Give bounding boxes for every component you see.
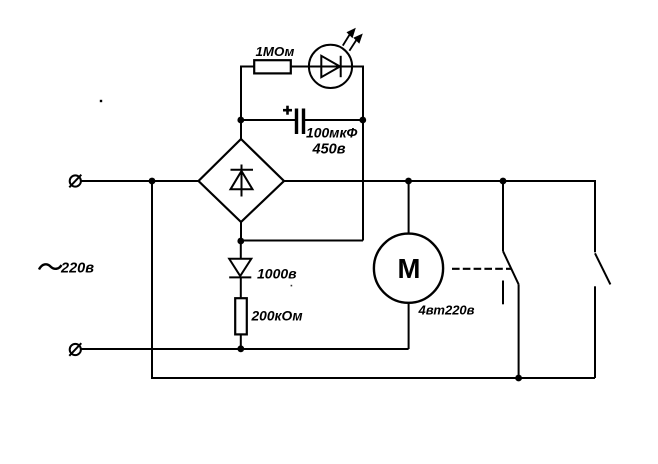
diode VD2 [229, 259, 251, 278]
node DC plus junction (241,120) [237, 117, 244, 124]
wire LED to DC minus rail [352, 66, 364, 68]
node junction B (519,378) [515, 375, 522, 382]
svg-text:220в: 220в [60, 261, 94, 277]
resistor R1 1МОм [254, 60, 291, 73]
node junction (503,181) [500, 178, 507, 185]
wire capacitor row right [305, 119, 363, 121]
wire DC minus right vertical [362, 67, 364, 241]
wire left vertical drop [151, 181, 153, 378]
node junction (363,120) [359, 117, 366, 124]
node junction (241,349) [237, 345, 244, 352]
diode symbol inside bridge [231, 165, 254, 197]
wire SA1 to bottom rail [518, 284, 520, 378]
svg-text:100мкФ: 100мкФ [306, 125, 357, 141]
svg-text:200кОм: 200кОм [251, 309, 303, 324]
LED HL1 [309, 45, 352, 88]
wire bridge top stub [240, 119, 242, 140]
terminal X2 bottom AC input [69, 343, 81, 356]
svg-text:М: М [398, 253, 421, 284]
wire top rail right section [284, 180, 596, 182]
LED emission arrows [343, 28, 363, 51]
wire R2 to bottom wire [240, 334, 242, 349]
capacitor C1 polarity plus [283, 106, 292, 115]
switch SA1 blade [503, 251, 519, 284]
wire motor top lead [408, 181, 410, 234]
wire junction to diode VD2 [240, 241, 242, 259]
motor M1 [374, 234, 443, 303]
wire capacitor row left [241, 119, 295, 121]
bridge rectifier diamond [199, 139, 285, 222]
wire motor bottom lead [408, 302, 410, 349]
svg-text:450в: 450в [312, 142, 346, 158]
wire diode VD2 to resistor R2 [240, 277, 242, 299]
wire DC plus rail up [240, 67, 242, 121]
resistor R2 200кОм [235, 298, 247, 334]
wire to resistor R1 [240, 66, 255, 68]
wire DC minus horizontal to bridge bottom [241, 240, 363, 242]
svg-text:4вт220в: 4вт220в [418, 303, 475, 318]
switch SA2 upper contact [594, 180, 596, 252]
wire bottom rail [151, 377, 595, 379]
switch SA1 upper contact [502, 181, 504, 251]
capacitor C1 plates [295, 109, 305, 135]
wire top AC input to bridge left vertex [81, 180, 199, 182]
mechanical linkage dashed line [452, 268, 511, 270]
terminal X1 top AC input [69, 175, 81, 188]
label AC source ~220в [39, 261, 94, 277]
node junction (241,241) [237, 238, 244, 245]
switch SA2 blade [595, 253, 610, 284]
svg-text:1000в: 1000в [257, 266, 297, 282]
wire R1 to LED [291, 66, 310, 68]
svg-text:1МОм: 1МОм [256, 44, 295, 59]
ink speck near diode label [291, 285, 293, 287]
ink speck top left [100, 100, 102, 102]
node junction (408.5,181) [405, 178, 412, 185]
wire SA2 to bottom rail [594, 286, 596, 378]
node junction A (152,181) [149, 178, 156, 185]
linkage stub [502, 281, 504, 305]
wire bridge bottom stub [240, 221, 242, 241]
wire bottom AC input to motor [81, 348, 409, 350]
